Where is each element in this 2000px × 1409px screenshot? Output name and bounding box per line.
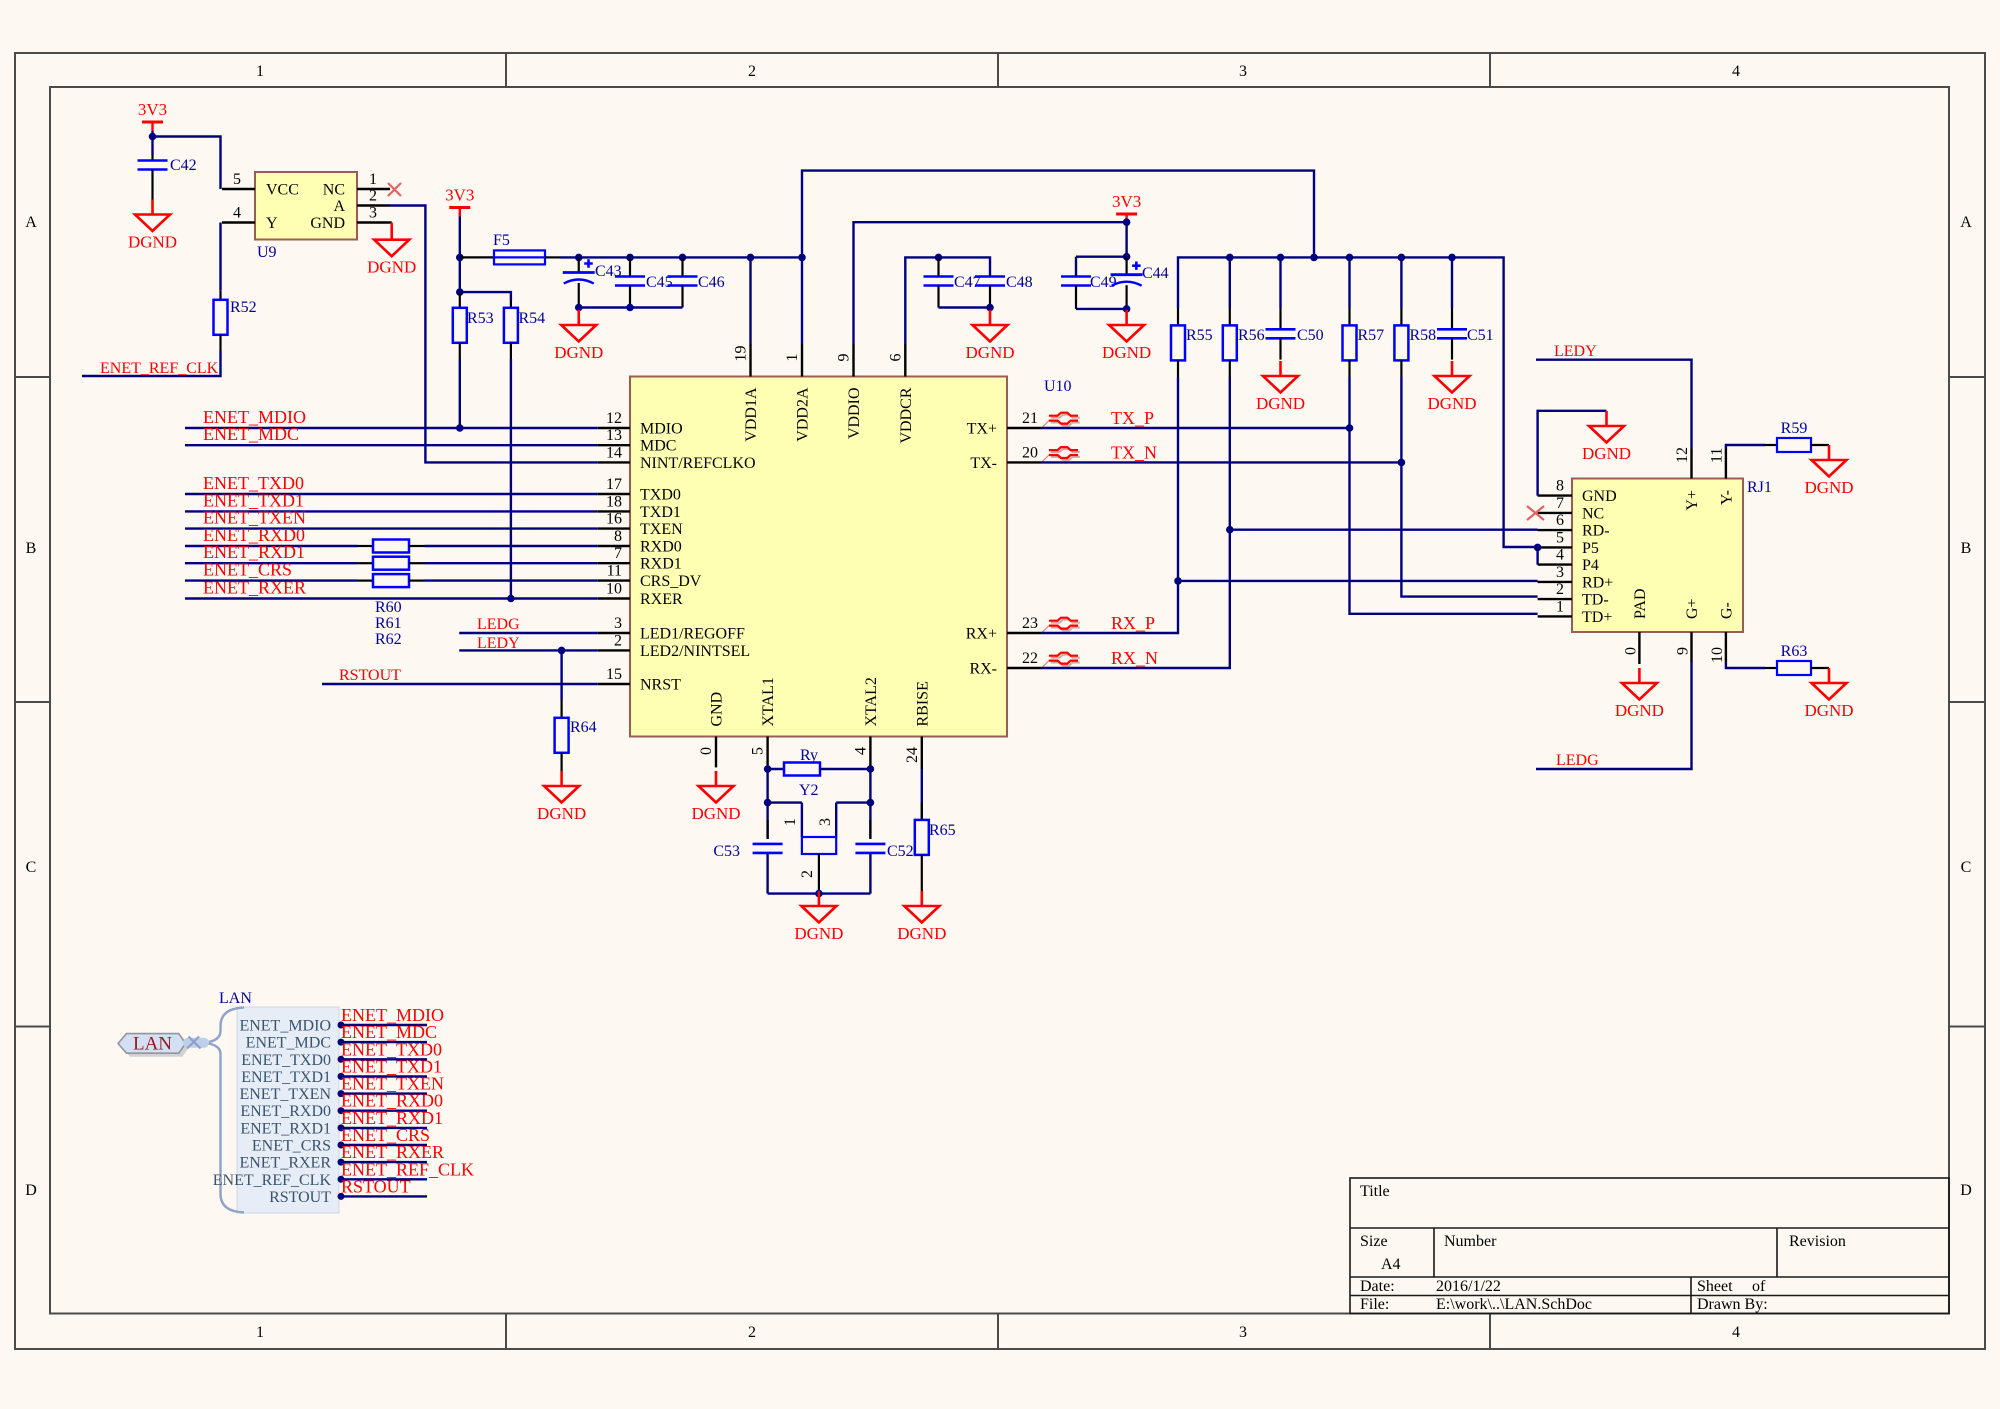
wire ENET_MDC: [185, 444, 598, 446]
svg-text:Ry: Ry: [800, 747, 818, 764]
ground DGND under C44: [1102, 310, 1151, 362]
pin 14 NINT/REFCLKO: [598, 461, 630, 463]
svg-text:ENET_MDC: ENET_MDC: [203, 424, 299, 444]
ground DGND under C43: [554, 310, 603, 362]
svg-text:12: 12: [1674, 447, 1691, 463]
wire C47/C48 bottoms: [939, 306, 991, 308]
svg-text:TX-: TX-: [970, 455, 997, 472]
svg-text:E:\work\..\LAN.SchDoc: E:\work\..\LAN.SchDoc: [1436, 1296, 1592, 1313]
svg-text:A: A: [25, 214, 37, 231]
no-connect X on pin 7: [1527, 506, 1544, 520]
svg-text:R60: R60: [375, 599, 402, 616]
svg-text:D: D: [25, 1182, 37, 1199]
svg-text:MDC: MDC: [640, 438, 676, 455]
wire sheet ENET_TXD1: [339, 1075, 427, 1077]
svg-text:1: 1: [256, 1324, 264, 1341]
svg-text:RXER: RXER: [640, 591, 683, 608]
wire sheet ENET_RXD0: [339, 1109, 427, 1111]
svg-text:11: 11: [607, 563, 622, 580]
svg-text:R55: R55: [1186, 327, 1213, 344]
svg-text:ENET_RXD1: ENET_RXD1: [240, 1120, 331, 1137]
svg-text:LED1/REGOFF: LED1/REGOFF: [640, 626, 745, 643]
svg-text:15: 15: [606, 666, 622, 683]
svg-text:Sheet: Sheet: [1697, 1278, 1733, 1295]
power 3V3 (middle left): [445, 186, 474, 217]
svg-text:Drawn By:: Drawn By:: [1697, 1296, 1768, 1313]
svg-text:LEDY: LEDY: [1554, 343, 1597, 360]
svg-text:ENET_TXD1: ENET_TXD1: [241, 1069, 331, 1086]
node C43 bottom: [575, 304, 583, 312]
wire sheet ENET_TXD0: [339, 1058, 427, 1060]
pin 10 G- of RJ1: [1725, 632, 1727, 662]
wire sheet RSTOUT: [339, 1195, 427, 1197]
wire C43/C45/C46 bottoms: [579, 306, 683, 308]
node rail feed: [1310, 254, 1318, 262]
pin 16 TXEN: [598, 527, 630, 529]
diffpair marker TX_P: [1042, 413, 1080, 428]
svg-text:RSTOUT: RSTOUT: [269, 1189, 331, 1206]
resistor R57: [1348, 257, 1350, 308]
wire sheet ENET_RXER: [339, 1161, 427, 1163]
node XTAL2/Ry: [867, 765, 875, 773]
svg-text:13: 13: [606, 427, 622, 444]
node R54/RXER: [507, 595, 515, 603]
wire TX_P to TD+: [1042, 428, 1538, 614]
svg-text:A: A: [1960, 214, 1972, 231]
node TX_N/R58: [1398, 459, 1406, 467]
pin 6 RD- of RJ1: [1538, 529, 1572, 531]
svg-text:R63: R63: [1781, 643, 1808, 660]
svg-text:Y: Y: [266, 215, 278, 232]
pin 0 PAD of RJ1: [1638, 632, 1640, 664]
wire VDDCR pin to C47/C48 rail: [905, 257, 990, 344]
svg-text:RXD0: RXD0: [640, 539, 682, 556]
wire R52 to ENET_REF_CLK: [82, 351, 221, 376]
svg-text:RX_N: RX_N: [1111, 648, 1158, 668]
power 3V3 (top middle): [1112, 192, 1141, 223]
svg-text:P4: P4: [1582, 557, 1599, 574]
wire R53 to ENET_MDIO: [459, 359, 461, 428]
pin 2 A of U9: [357, 204, 391, 206]
svg-text:1: 1: [784, 354, 801, 362]
svg-text:4: 4: [1732, 63, 1740, 80]
node XTAL2/Y2: [867, 799, 875, 807]
svg-text:0: 0: [698, 747, 715, 755]
node RX_N/R56: [1226, 526, 1234, 534]
svg-text:2: 2: [614, 632, 622, 649]
wire ENET_CRS left of R62: [185, 579, 358, 581]
svg-text:ENET_REF_CLK: ENET_REF_CLK: [213, 1172, 332, 1189]
svg-text:3: 3: [1556, 564, 1564, 581]
svg-text:5: 5: [1556, 529, 1564, 546]
svg-text:VDDCR: VDDCR: [898, 387, 915, 443]
connector RJ1 body: [1572, 479, 1743, 633]
svg-text:Y+: Y+: [1684, 490, 1701, 511]
svg-text:RSTOUT: RSTOUT: [339, 667, 401, 684]
wire LEDG to pin 3: [459, 632, 598, 634]
node R56 top: [1226, 254, 1234, 262]
svg-text:C48: C48: [1006, 274, 1033, 291]
pin 4 Y of U9: [222, 221, 255, 223]
node R53/R54 tee: [456, 288, 464, 296]
pin 8 RXD0: [598, 545, 630, 547]
svg-text:R57: R57: [1358, 327, 1385, 344]
svg-text:24: 24: [904, 747, 921, 763]
wire XTAL2 branch: [869, 769, 871, 894]
svg-text:ENET_TXD0: ENET_TXD0: [241, 1052, 331, 1069]
wire ENET_RXD1 left of R61: [185, 562, 358, 564]
svg-text:C42: C42: [170, 157, 197, 174]
capacitor C53: [766, 820, 768, 839]
node TX_P/R57: [1346, 424, 1354, 432]
resistor R55: [1177, 308, 1179, 325]
wire RJ1 GND pin 8 to DGND: [1538, 411, 1607, 496]
svg-text:TXD0: TXD0: [640, 487, 681, 504]
svg-text:C49: C49: [1090, 274, 1117, 291]
resistor R56: [1229, 257, 1231, 308]
svg-text:1: 1: [256, 63, 264, 80]
svg-text:NINT/REFCLKO: NINT/REFCLKO: [640, 455, 756, 472]
svg-text:1: 1: [782, 818, 799, 826]
svg-text:ENET_REF_CLK: ENET_REF_CLK: [100, 360, 219, 377]
pin 18 TXD1: [598, 510, 630, 512]
pin 10 RXER: [598, 597, 630, 599]
svg-text:RD+: RD+: [1582, 574, 1613, 591]
capacitor C52: [869, 820, 871, 839]
wire R60 to RXD0 pin: [425, 545, 598, 547]
svg-text:NC: NC: [1582, 505, 1604, 522]
svg-text:GND: GND: [1582, 488, 1617, 505]
svg-text:8: 8: [1556, 478, 1564, 495]
pin 3 GND of U9: [357, 221, 392, 223]
svg-text:R58: R58: [1410, 327, 1437, 344]
sheet symbol LAN body: [237, 1007, 339, 1213]
svg-text:RBISE: RBISE: [914, 681, 931, 726]
svg-text:RX+: RX+: [966, 626, 997, 643]
ground DGND under Y2: [794, 891, 843, 943]
pin 0 GND (bottom): [715, 737, 717, 768]
svg-text:A4: A4: [1381, 1256, 1401, 1273]
svg-text:R52: R52: [230, 299, 257, 316]
svg-text:2: 2: [1556, 581, 1564, 598]
svg-text:3: 3: [614, 615, 622, 632]
capacitor C46: [681, 257, 683, 276]
pin 1 NC of U9: [357, 188, 390, 190]
svg-text:20: 20: [1022, 444, 1038, 461]
resistor R60: [358, 545, 374, 547]
svg-text:9: 9: [836, 354, 853, 362]
resistor R59: [1765, 444, 1777, 446]
node C44 bottom: [1123, 305, 1131, 313]
wire Y- to R59: [1726, 445, 1765, 449]
svg-text:XTAL2: XTAL2: [863, 677, 880, 726]
svg-text:7: 7: [1556, 495, 1564, 512]
svg-text:8: 8: [614, 528, 622, 545]
wire 3V3 rail F5 to VDD2A: [560, 256, 802, 258]
node 3V3 rail junction: [456, 254, 464, 262]
node RX_P/R55: [1174, 577, 1182, 585]
ground DGND near RJ1 top: [1582, 411, 1631, 463]
svg-text:R56: R56: [1238, 327, 1265, 344]
svg-text:ENET_TXEN: ENET_TXEN: [239, 1086, 331, 1103]
sheet symbol brace: [204, 1008, 244, 1213]
svg-text:17: 17: [606, 476, 622, 493]
svg-text:A: A: [333, 198, 345, 215]
svg-text:R61: R61: [375, 615, 402, 632]
svg-text:XTAL1: XTAL1: [760, 677, 777, 726]
ground DGND under R59: [1804, 445, 1853, 497]
node XTAL1/Y2: [764, 799, 772, 807]
svg-text:12: 12: [606, 410, 622, 427]
wire U9 pin A to NINT/REFCLKO: [391, 206, 598, 463]
svg-text:VDD1A: VDD1A: [743, 387, 760, 442]
wire sheet ENET_REF_CLK: [339, 1178, 427, 1180]
ground DGND under R65: [897, 891, 946, 943]
wire 3V3 to C42/U9: [153, 131, 221, 189]
svg-text:ENET_MDIO: ENET_MDIO: [239, 1018, 331, 1035]
wire TX_N to TD-: [1042, 462, 1538, 596]
svg-text:4: 4: [233, 205, 241, 222]
svg-text:3: 3: [369, 205, 377, 222]
capacitor C50: [1279, 257, 1281, 308]
svg-text:File:: File:: [1360, 1296, 1389, 1313]
wire sheet ENET_CRS: [339, 1144, 427, 1146]
pin 7 RXD1: [598, 562, 630, 564]
svg-text:C51: C51: [1467, 327, 1494, 344]
pin 11 Y- of RJ1: [1725, 449, 1727, 479]
svg-text:2: 2: [799, 870, 816, 878]
svg-text:19: 19: [733, 346, 750, 362]
wire ENET_TXEN: [185, 527, 598, 529]
svg-text:5: 5: [750, 747, 767, 755]
svg-text:2: 2: [748, 63, 756, 80]
svg-text:LEDY: LEDY: [477, 635, 520, 652]
svg-text:R64: R64: [570, 719, 597, 736]
svg-text:2: 2: [748, 1324, 756, 1341]
svg-text:3: 3: [1239, 63, 1247, 80]
svg-text:B: B: [26, 540, 37, 557]
svg-text:4: 4: [1732, 1324, 1740, 1341]
svg-text:TD+: TD+: [1582, 609, 1612, 626]
pin 3 RD+ of RJ1: [1538, 581, 1572, 583]
resistor R52: [219, 223, 221, 291]
node LEDY/R64: [558, 647, 566, 655]
wire ENET_TXD1: [185, 510, 598, 512]
svg-text:23: 23: [1022, 615, 1038, 632]
svg-text:TXEN: TXEN: [640, 521, 683, 538]
wire P5 to P4: [1536, 547, 1538, 564]
ground DGND under C42: [128, 200, 177, 252]
node C44 top rail: [1123, 253, 1131, 261]
ground DGND under PAD: [1615, 668, 1664, 720]
svg-text:B: B: [1961, 540, 1972, 557]
svg-text:Size: Size: [1360, 1233, 1388, 1250]
svg-text:16: 16: [606, 511, 622, 528]
svg-text:2: 2: [369, 188, 377, 205]
svg-text:MDIO: MDIO: [640, 421, 683, 438]
svg-text:R62: R62: [375, 631, 402, 648]
svg-text:RX-: RX-: [969, 661, 997, 678]
pin 4 P4 of RJ1: [1538, 563, 1572, 565]
svg-text:TXD1: TXD1: [640, 504, 681, 521]
svg-text:R65: R65: [929, 822, 956, 839]
wire LEDY: [1536, 360, 1692, 449]
wire tee to R54: [460, 292, 511, 300]
svg-text:21: 21: [1022, 410, 1038, 427]
svg-text:VDDIO: VDDIO: [846, 388, 863, 440]
node C47 top: [935, 254, 943, 262]
node P5/P4 tee: [1534, 544, 1542, 552]
wire RX_N to RD-: [1042, 530, 1538, 668]
capacitor C51: [1451, 257, 1453, 308]
wire R58 down to TD- net: [1400, 377, 1402, 462]
svg-text:22: 22: [1022, 650, 1038, 667]
pin 2 TD- of RJ1: [1538, 598, 1572, 600]
svg-text:2016/1/22: 2016/1/22: [1436, 1278, 1501, 1295]
capacitor C48: [975, 277, 1005, 286]
ground DGND under U9 pin 3: [367, 225, 416, 277]
resistor R65: [921, 769, 923, 820]
svg-text:CRS_DV: CRS_DV: [640, 573, 702, 590]
wire RX_P to RD+: [1042, 581, 1538, 633]
svg-text:10: 10: [1709, 647, 1726, 663]
svg-text:NC: NC: [323, 182, 345, 199]
svg-text:3: 3: [1239, 1324, 1247, 1341]
resistor R58: [1400, 257, 1402, 308]
svg-text:C53: C53: [713, 843, 740, 860]
pin 22 RX-: [1007, 667, 1042, 669]
port LAN: [122, 1037, 190, 1057]
node C45 bottom: [626, 304, 634, 312]
svg-text:LAN: LAN: [219, 990, 252, 1007]
svg-text:6: 6: [887, 354, 904, 362]
svg-text:1: 1: [1556, 598, 1564, 615]
resistor R64: [560, 650, 562, 700]
wire sheet ENET_RXD1: [339, 1127, 427, 1129]
node C51 top: [1448, 254, 1456, 262]
pin 21 TX+: [1007, 427, 1042, 429]
capacitor C47: [937, 257, 939, 276]
wire right 3V3 rail: [1178, 257, 1538, 547]
node XTAL1/Ry: [764, 765, 772, 773]
wire VDDIO pin up to 3V3: [854, 222, 1127, 344]
fuse F5: [460, 256, 494, 258]
bus squiggle LAN port to sheet: [188, 1038, 204, 1048]
svg-text:R54: R54: [519, 310, 546, 327]
wire ENET_TXD0: [185, 493, 598, 495]
pin 13 MDC: [598, 444, 630, 446]
svg-text:C50: C50: [1297, 327, 1324, 344]
svg-text:5: 5: [233, 171, 241, 188]
wire 3V3 down to rail and R53/R54: [459, 217, 461, 293]
svg-text:C: C: [1961, 859, 1972, 876]
resistor R54: [510, 301, 512, 308]
wire LEDY to pin 2: [459, 649, 598, 651]
ground DGND under R63: [1804, 668, 1853, 720]
svg-text:Y-: Y-: [1718, 490, 1735, 505]
svg-text:ENET_RXER: ENET_RXER: [203, 578, 306, 598]
diffpair marker TX_N: [1042, 447, 1080, 462]
svg-text:D: D: [1960, 1182, 1972, 1199]
pin 2 LED2/NINTSEL: [598, 649, 630, 651]
svg-text:PAD: PAD: [1632, 588, 1649, 619]
svg-text:Y2: Y2: [799, 782, 819, 799]
wire 3V3 to C49/C44 rail: [1076, 256, 1127, 258]
svg-text:ENET_RXER: ENET_RXER: [239, 1155, 331, 1172]
IC U10 body: [630, 377, 1007, 737]
svg-text:6: 6: [1556, 512, 1564, 529]
pin 4 XTAL2: [869, 737, 871, 770]
wire crystal bottom to DGND: [768, 892, 871, 894]
svg-text:TX+: TX+: [967, 421, 997, 438]
node VDD1A rail junction: [747, 254, 755, 262]
wire R56 down to RD- net: [1229, 377, 1231, 530]
svg-text:TX_P: TX_P: [1111, 408, 1154, 428]
svg-text:4: 4: [1556, 547, 1564, 564]
svg-text:RD-: RD-: [1582, 523, 1610, 540]
wire VDD2A pin up and over to right rail: [802, 171, 1314, 344]
wire R55 down to RD+ net: [1177, 377, 1179, 581]
node 3V3/VDDIO junction: [1123, 218, 1131, 226]
pin 6 VDDCR: [904, 344, 906, 377]
pin 11 CRS_DV: [598, 579, 630, 581]
ground DGND under R64: [537, 771, 586, 823]
svg-text:NRST: NRST: [640, 677, 681, 694]
pin 3 LED1/REGOFF: [598, 632, 630, 634]
pin 23 RX+: [1007, 632, 1042, 634]
wire R61 to RXD1 pin: [425, 562, 598, 564]
svg-text:Number: Number: [1444, 1233, 1497, 1250]
title block: [1350, 1178, 1949, 1314]
pin 5 VCC of U9: [222, 188, 255, 190]
svg-text:Date:: Date:: [1360, 1278, 1395, 1295]
diffpair marker RX_P: [1042, 618, 1080, 633]
node VDD2A rail junction: [798, 254, 806, 262]
wire G- to R63: [1726, 662, 1765, 668]
svg-text:LAN: LAN: [133, 1034, 172, 1055]
resistor R61: [358, 562, 374, 564]
wire U9 GND to DGND: [391, 223, 393, 240]
resistor R62: [358, 579, 374, 581]
pin 20 TX-: [1007, 461, 1042, 463]
svg-text:VCC: VCC: [266, 182, 299, 199]
svg-text:11: 11: [1708, 448, 1725, 463]
svg-text:U9: U9: [257, 244, 277, 261]
capacitor C45: [629, 257, 631, 276]
svg-text:Title: Title: [1360, 1183, 1390, 1200]
node C43 top: [575, 254, 583, 262]
svg-text:ENET_CRS: ENET_CRS: [252, 1138, 331, 1155]
capacitor C42: [151, 155, 153, 161]
pin 8 GND of RJ1: [1538, 494, 1572, 496]
wire ENET_MDIO: [185, 427, 598, 429]
svg-text:RXD1: RXD1: [640, 556, 682, 573]
pin 19 VDD1A: [749, 344, 751, 377]
pin 12 Y+ of RJ1: [1690, 449, 1692, 479]
svg-text:of: of: [1752, 1278, 1766, 1295]
wire C49/C44 bottoms: [1076, 308, 1127, 310]
svg-text:GND: GND: [310, 215, 345, 232]
svg-text:RSTOUT: RSTOUT: [341, 1176, 411, 1196]
svg-text:LEDG: LEDG: [477, 616, 520, 633]
wire R57 down to TD+ net: [1348, 377, 1350, 428]
svg-text:LED2/NINTSEL: LED2/NINTSEL: [640, 643, 750, 660]
svg-text:C44: C44: [1142, 265, 1169, 282]
svg-text:18: 18: [606, 493, 622, 510]
wire XTAL1 branch: [766, 769, 768, 894]
capacitor C44 (polarized): [1125, 257, 1127, 275]
resistor R63: [1765, 667, 1777, 669]
